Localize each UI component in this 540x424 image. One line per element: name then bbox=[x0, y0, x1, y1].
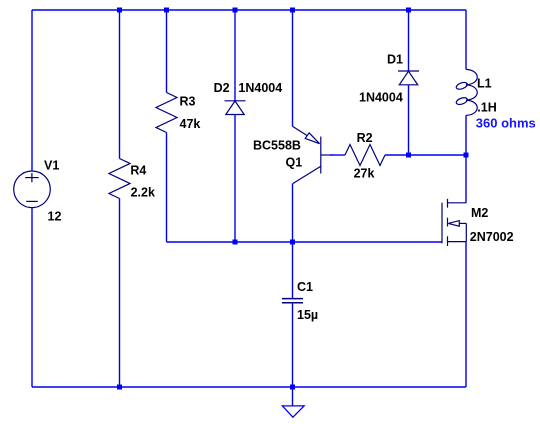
svg-text:15µ: 15µ bbox=[297, 308, 318, 322]
transistor Q1 BC558B PNP bbox=[293, 126, 334, 184]
wire: R4 branch top bbox=[119, 10, 121, 159]
resistor R4 bbox=[109, 159, 130, 199]
inductor L1 bbox=[455, 69, 477, 115]
wire: top rail +12V net bbox=[32, 9, 466, 11]
svg-text:R4: R4 bbox=[130, 163, 146, 177]
junction: R3 at top rail bbox=[164, 8, 169, 13]
svg-text:1N4004: 1N4004 bbox=[238, 81, 282, 95]
svg-text:2.2k: 2.2k bbox=[131, 185, 155, 199]
svg-text:D2: D2 bbox=[214, 81, 230, 95]
diode D2 bbox=[225, 101, 246, 115]
wire: R3 branch top bbox=[166, 10, 168, 93]
wire: D1 branch bottom bbox=[408, 85, 410, 155]
resistor R3 bbox=[156, 93, 177, 133]
junction: Q1 collector / C1 at base rail bbox=[290, 240, 295, 245]
diode D1 bbox=[398, 71, 419, 85]
resistor R2 bbox=[345, 145, 385, 166]
junction: L1 bottom / M2 drain at R2 net bbox=[464, 153, 469, 158]
svg-text:2N7002: 2N7002 bbox=[470, 230, 514, 244]
wire: D2 branch top bbox=[234, 10, 236, 101]
svg-text:47k: 47k bbox=[180, 117, 201, 131]
junction: C1 / ground at bottom rail bbox=[290, 385, 295, 390]
wire: base rail y=242 (R3 / D2 / Q1 collector / M2 gate net) bbox=[167, 241, 443, 243]
wire: left rail bottom (V1 minus lead) bbox=[31, 208, 33, 387]
svg-text:.1H: .1H bbox=[477, 101, 496, 115]
wire: R3 branch bottom to base rail bbox=[166, 133, 168, 243]
junction: R4 at bottom rail bbox=[117, 385, 122, 390]
wire: R4 branch bottom bbox=[119, 199, 121, 388]
junction: R4 at top rail bbox=[117, 8, 122, 13]
svg-text:Q1: Q1 bbox=[286, 155, 303, 169]
wire: Q1 emitter branch top bbox=[292, 10, 294, 126]
wire: bottom rail ground net bbox=[32, 386, 466, 388]
junction: D1 bottom at R2 net bbox=[406, 153, 411, 158]
wire: Q1 collector down to base rail bbox=[292, 184, 294, 242]
svg-text:27k: 27k bbox=[354, 167, 375, 181]
wire: Q1 base to R2 bbox=[330, 154, 345, 156]
wire: D1 branch top bbox=[408, 10, 410, 71]
wire: ground stub below bottom rail bbox=[292, 387, 294, 406]
voltage source V1 bbox=[14, 171, 51, 208]
junction: D1 at top rail bbox=[406, 8, 411, 13]
svg-text:1N4004: 1N4004 bbox=[359, 91, 403, 105]
wire: node down to M2 drain bbox=[465, 155, 467, 203]
junction: D2 at top rail bbox=[233, 8, 238, 13]
mosfet M2 2N7002 bbox=[442, 199, 466, 246]
wire: left rail top (V1 plus lead) bbox=[31, 10, 33, 171]
svg-text:BC558B: BC558B bbox=[253, 139, 301, 153]
capacitor C1 bbox=[282, 299, 303, 303]
svg-text:C1: C1 bbox=[297, 280, 313, 294]
wire: right branch top to L1 bbox=[465, 10, 467, 69]
svg-text:M2: M2 bbox=[471, 206, 488, 220]
ground symbol bbox=[282, 406, 304, 417]
svg-text:12: 12 bbox=[48, 210, 62, 224]
svg-text:L1: L1 bbox=[477, 77, 492, 91]
svg-text:V1: V1 bbox=[44, 159, 59, 173]
svg-text:R3: R3 bbox=[180, 95, 196, 109]
wire: M2 source down to bottom rail bbox=[465, 242, 467, 387]
wire: C1 bottom to bottom rail bbox=[292, 303, 294, 387]
svg-text:360 ohms: 360 ohms bbox=[476, 115, 536, 130]
wire: C1 branch top bbox=[292, 242, 294, 298]
junction: Q1 emitter at top rail bbox=[290, 8, 295, 13]
svg-text:R2: R2 bbox=[357, 131, 373, 145]
wire: R2 right to D1 and M2 drain net bbox=[385, 154, 466, 156]
wire: D2 branch bottom bbox=[234, 115, 236, 243]
svg-text:D1: D1 bbox=[387, 53, 403, 67]
junction: D2 bottom at base rail bbox=[233, 240, 238, 245]
wire: L1 bottom to node bbox=[465, 115, 467, 155]
